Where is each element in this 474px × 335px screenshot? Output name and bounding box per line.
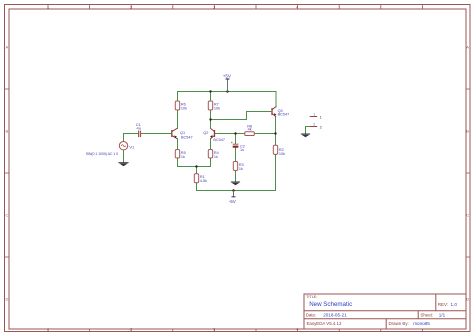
svg-text:10k: 10k [279, 152, 285, 156]
svg-text:-5V: -5V [229, 199, 237, 204]
wire: R1 branch [196, 167, 198, 191]
wire: P1 pin2 to ground [306, 127, 310, 134]
svg-text:4.5k: 4.5k [200, 179, 207, 183]
power flag +5V [223, 74, 232, 92]
svg-text:Sheet:: Sheet: [420, 312, 433, 317]
resistor R3 1k [233, 162, 243, 171]
transistor Q2 BC547 (mirrored) [203, 128, 225, 141]
capacitor C1 [136, 122, 142, 137]
resistor R4 1k [208, 150, 218, 159]
svg-text:1/1: 1/1 [439, 312, 446, 317]
svg-text:D: D [6, 297, 9, 302]
svg-text:Date:: Date: [306, 312, 317, 317]
svg-text:New Schematic: New Schematic [309, 301, 352, 308]
wire: V1 to ground [123, 150, 125, 162]
svg-text:1k: 1k [214, 155, 218, 159]
svg-text:A: A [466, 45, 469, 50]
svg-text:REV:: REV: [438, 302, 448, 307]
svg-text:V1: V1 [129, 144, 135, 149]
capacitor C2 1u polarized [231, 142, 245, 152]
wire: Q2 emitter to R4 to stage rail [210, 139, 212, 167]
svg-text:10k: 10k [214, 106, 220, 110]
node: stage rail/R1 [195, 165, 197, 167]
transistor Q3 BC547 [272, 107, 289, 117]
svg-text:2: 2 [320, 125, 322, 129]
svg-text:BC547: BC547 [213, 138, 225, 142]
svg-text:A: A [6, 45, 9, 50]
svg-text:EasyEDA V5.4.12: EasyEDA V5.4.12 [307, 321, 342, 326]
power flag -5V [229, 191, 237, 204]
wire: +5V top rail [178, 91, 277, 93]
svg-text:1k: 1k [239, 167, 243, 171]
svg-text:BC547: BC547 [278, 112, 290, 116]
svg-text:1.0: 1.0 [451, 302, 458, 307]
svg-text:D: D [466, 297, 469, 302]
svg-text:1k: 1k [181, 155, 185, 159]
resistor R7 10k [208, 101, 220, 110]
wire: Q2 base row / R8 row [214, 133, 275, 135]
wire: row node to R2 to bottom rail [275, 134, 277, 191]
resistor R6 10k [175, 101, 187, 110]
svg-text:2: 2 [313, 123, 315, 127]
wire: V1 to C1 to Q1 base [124, 134, 172, 143]
svg-text:B: B [466, 129, 469, 134]
svg-text:Drawn By:: Drawn By: [389, 321, 409, 326]
title block [304, 294, 466, 329]
node: rail/R7 [209, 90, 211, 92]
svg-text:mono85: mono85 [413, 321, 430, 326]
ground below V1 [118, 162, 128, 166]
frame zone ticks top [48, 5, 422, 10]
svg-text:1u: 1u [240, 148, 244, 152]
wire: -5V bottom rail [197, 190, 276, 192]
ground below R3 [231, 182, 240, 186]
transistor Q1 BC547 [172, 128, 193, 139]
node: R7/Q2 collector/link [209, 118, 211, 120]
frame zone ticks bottom [48, 329, 422, 332]
resistor R1 4.5k [194, 174, 207, 183]
svg-text:2018-05-21: 2018-05-21 [323, 312, 347, 317]
voltage source V1 [86, 142, 135, 156]
connector P1 pin 1 [310, 113, 322, 120]
frame zone ticks left and right [5, 89, 471, 257]
ground below P1 pin 2 [301, 134, 310, 138]
wire: R6 column [177, 92, 179, 129]
svg-text:10k: 10k [181, 106, 187, 110]
svg-text:C: C [6, 213, 9, 218]
node: rail/+5V [226, 90, 228, 92]
svg-text:+5V: +5V [223, 74, 232, 79]
wire: C2 branch to R3 to ground [235, 134, 237, 182]
svg-text:1: 1 [313, 113, 315, 117]
svg-text:TITLE:: TITLE: [306, 295, 317, 299]
svg-text:B: B [6, 129, 9, 134]
svg-text:4u: 4u [137, 125, 141, 130]
svg-text:SIN(0 1 1000) AC 1 0: SIN(0 1 1000) AC 1 0 [86, 152, 118, 156]
wire: R7 column [210, 92, 212, 129]
node: bottom rail/-5V [232, 189, 234, 191]
svg-text:Q2: Q2 [203, 131, 208, 135]
resistor R5 1k [175, 150, 185, 159]
connector P1 pin 2 [310, 123, 322, 130]
wire: Q3 emitter down to row node [275, 117, 277, 134]
svg-text:4k: 4k [248, 128, 252, 132]
wire: R7 node to Q3 base [211, 112, 271, 120]
svg-text:C: C [466, 213, 469, 218]
resistor R2 10k [273, 145, 285, 156]
resistor R8 4k (horizontal) [245, 125, 254, 136]
wire: Q1 emitter to R5 to stage rail [178, 139, 211, 167]
wire: Q3 collector drop [275, 92, 277, 108]
node: Q3 emitter/R8/R2 [274, 132, 276, 134]
node: Q2 base/R8/C2 [234, 132, 236, 134]
svg-text:BC547: BC547 [181, 135, 193, 139]
svg-text:1: 1 [320, 115, 322, 119]
